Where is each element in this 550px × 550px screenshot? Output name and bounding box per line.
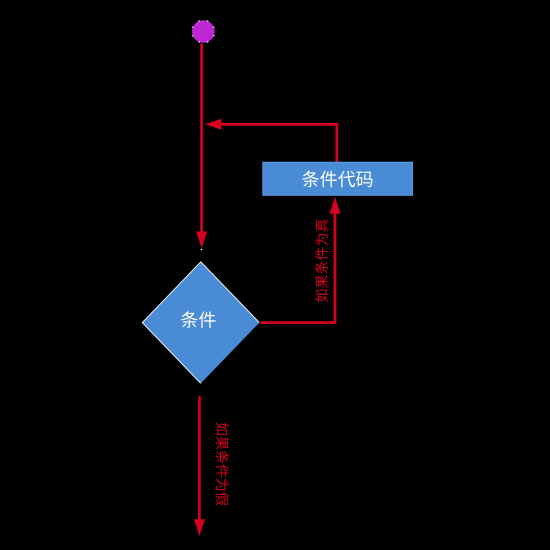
diamond white edge highlight (three edges) [142, 262, 259, 384]
process box 条件代码 [263, 162, 413, 195]
connection dot below arrowhead [201, 249, 203, 251]
arrowhead into condition diamond [196, 232, 207, 249]
wire: bottom vertical from diamond to exit [198, 396, 201, 520]
arrowhead up into code box bottom [330, 197, 341, 214]
wire: vertical from diamond-right corner up to code box [334, 213, 337, 324]
start node (magenta circle) [192, 20, 215, 43]
wire: loop-back vertical down to code box top [335, 123, 338, 163]
wire: main vertical from start node to condition diamond [200, 44, 203, 233]
condition diamond 条件 [142, 262, 259, 384]
label 条件代码 [302, 171, 372, 188]
wire: loop-back horizontal with left arrowhead [205, 119, 222, 130]
wire: horizontal from diamond right tip to corner [261, 321, 336, 324]
edge label 如果条件为真 (rotated, reads upward) [315, 219, 328, 302]
connection dots on start node [213, 35, 215, 37]
edge label 如果条件为假 (rotated, reads downward) [216, 423, 229, 506]
arrowhead exit bottom [194, 519, 205, 536]
label 条件 [181, 311, 216, 328]
